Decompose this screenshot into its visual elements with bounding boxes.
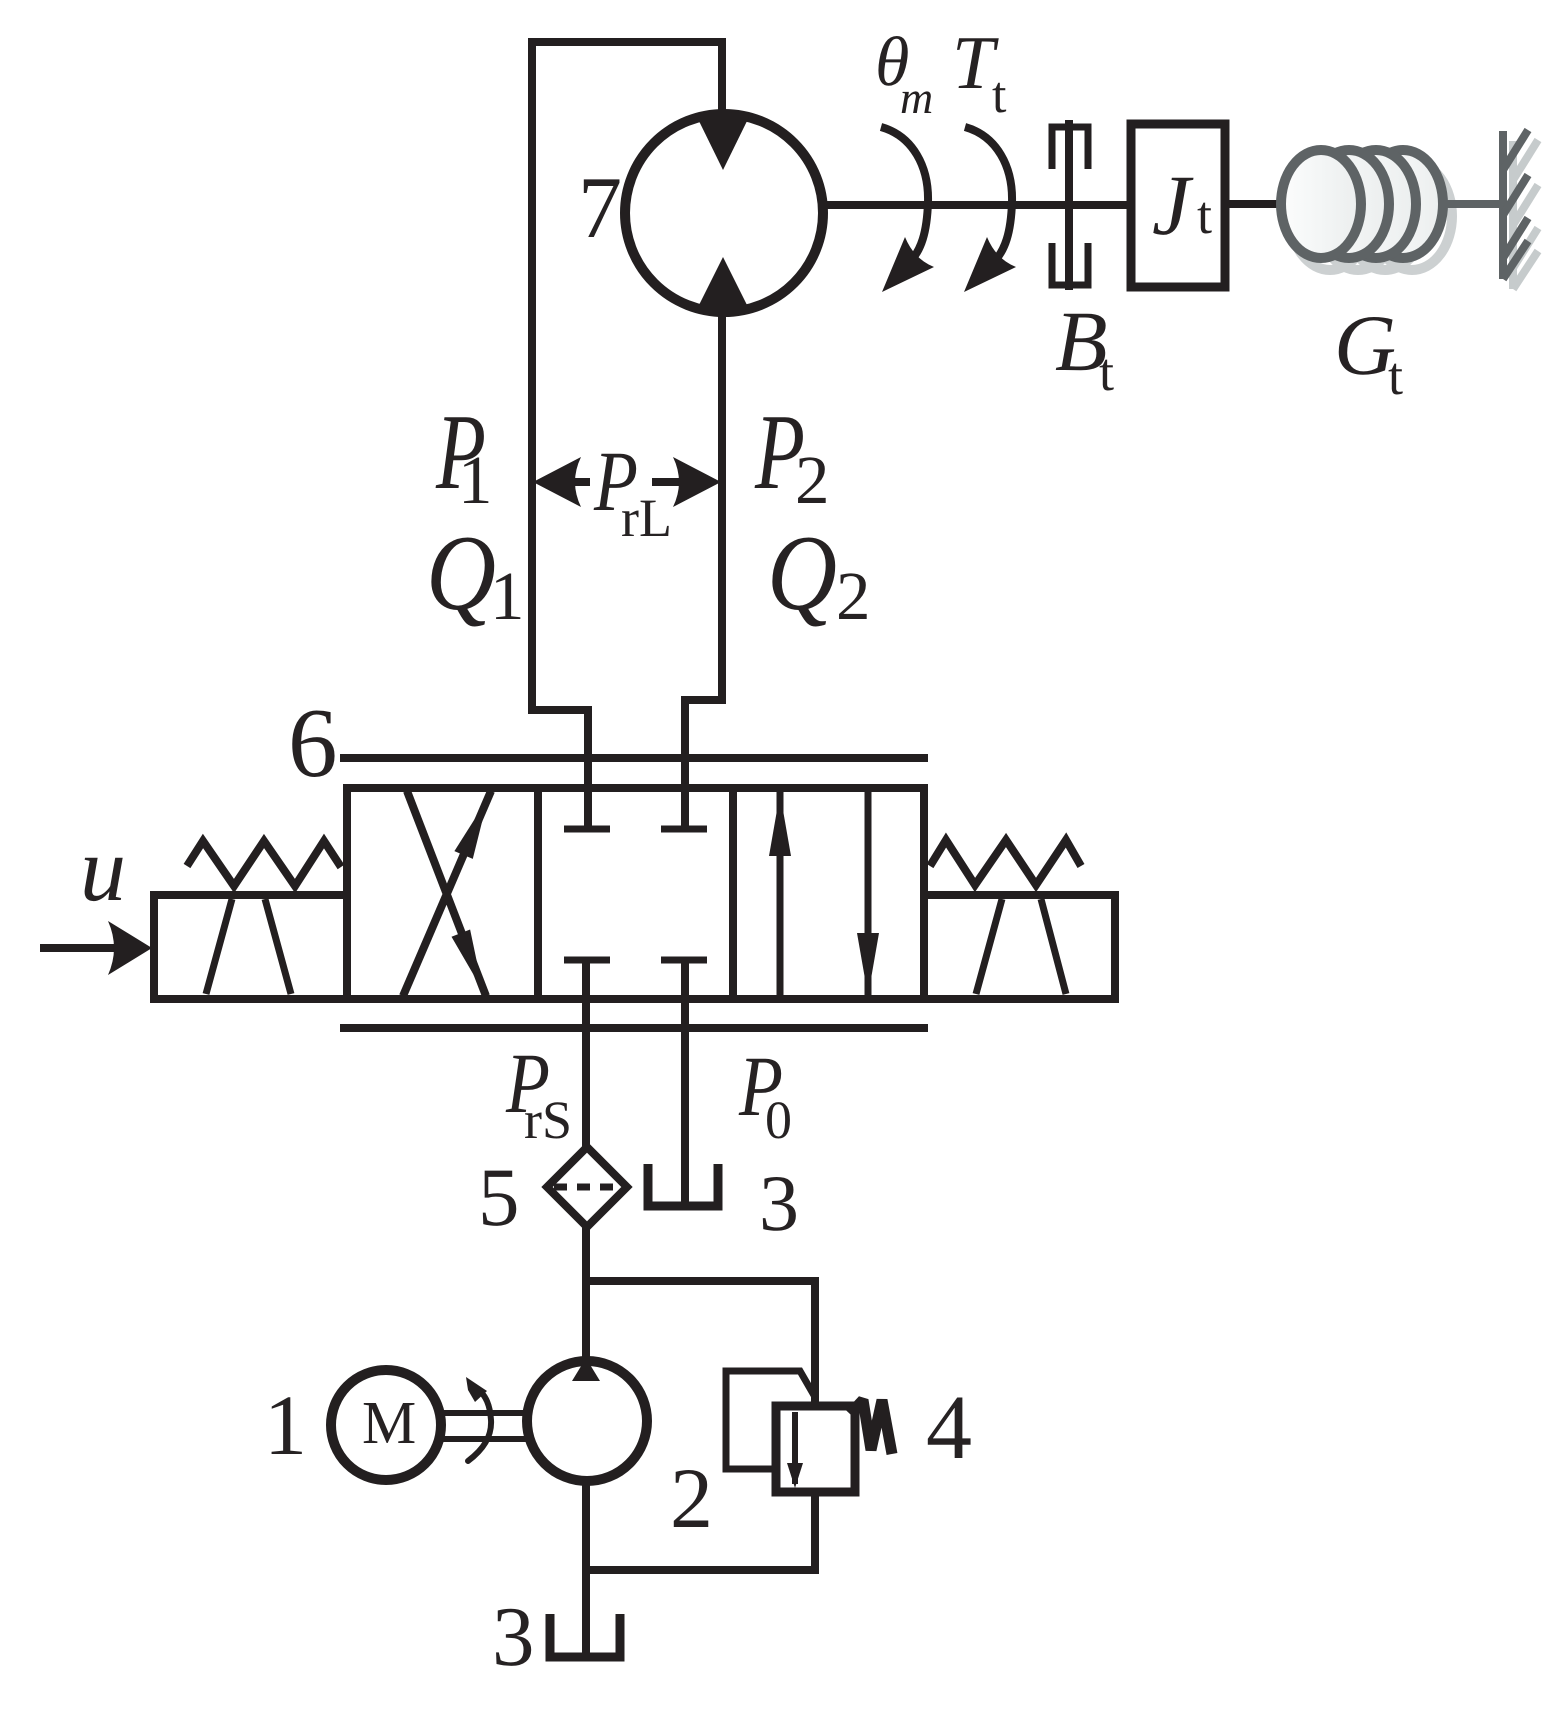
svg-text:t: t [1197, 185, 1212, 245]
svg-text:Q: Q [426, 514, 496, 633]
valve body (three position boxes) [347, 788, 924, 999]
svg-text:3: 3 [759, 1160, 799, 1248]
electric motor 1 circle [331, 1370, 441, 1480]
label Tt [952, 21, 1007, 124]
filter 5 diamond [547, 1147, 627, 1227]
shaft Jt to spring [1225, 200, 1282, 208]
relief valve spring [850, 1400, 892, 1454]
damper Bt top bracket [1052, 127, 1088, 169]
valve center blocked port bar top-right [661, 826, 707, 833]
svg-text:G: G [1334, 297, 1396, 393]
svg-text:J: J [1152, 157, 1194, 253]
valve left box crossed arrow A [403, 791, 491, 996]
svg-text:M: M [362, 1390, 416, 1457]
wall (fixed frame) [1503, 130, 1528, 279]
wire PrS (valve to filter) [582, 960, 590, 1148]
svg-text:1: 1 [264, 1377, 307, 1473]
svg-text:2: 2 [670, 1450, 713, 1546]
label Gt [1334, 297, 1403, 406]
valve right box up arrow [769, 792, 791, 999]
damper Bt bottom bracket [1052, 243, 1088, 285]
svg-text:7: 7 [578, 160, 622, 257]
relief valve 4 body [776, 1406, 855, 1492]
svg-text:t: t [1099, 342, 1114, 402]
wall shadow [1513, 140, 1538, 289]
label Q1 [426, 514, 525, 634]
svg-text:rL: rL [621, 488, 672, 548]
svg-text:Q: Q [767, 514, 837, 633]
curved arrow T_t [964, 127, 1016, 292]
valve center blocked port bar bottom-right [661, 957, 707, 964]
label Q2 [767, 514, 871, 634]
svg-text:0: 0 [765, 1090, 792, 1150]
label Bt [1055, 293, 1114, 402]
shaft motor to Jt [823, 201, 1131, 209]
proportional valve lower symmetry line [340, 1024, 928, 1032]
label P0 [738, 1038, 792, 1150]
left solenoid box [154, 895, 347, 999]
inertia Jt box [1131, 124, 1225, 287]
wire filter to pump [582, 1227, 590, 1358]
right solenoid slant lines [976, 899, 1066, 994]
right solenoid box [924, 895, 1115, 999]
svg-text:6: 6 [288, 689, 338, 798]
svg-text:t: t [992, 67, 1007, 124]
pump suction wire [582, 1483, 590, 1653]
filter dashed element [554, 1184, 620, 1191]
label theta_m [875, 24, 931, 113]
pump 2 circle [527, 1361, 647, 1481]
relief valve internal arrow [787, 1412, 803, 1488]
svg-text:u: u [80, 818, 126, 920]
valve left box crossed arrow B [407, 791, 486, 996]
spring Gt shadow [1290, 162, 1452, 270]
motor triangle bottom [697, 257, 749, 309]
svg-text:θ: θ [875, 24, 909, 101]
right spring [930, 840, 1081, 885]
spring Gt coils [1281, 150, 1443, 258]
valve center blocked port bar top-left [564, 826, 610, 833]
link spring to wall [1443, 200, 1503, 208]
label Jt [1152, 157, 1212, 253]
curved arrow theta_m [881, 127, 934, 292]
pump triangle [572, 1358, 600, 1381]
wire P0 (valve to tank) [681, 960, 689, 1203]
label PrL [590, 433, 672, 548]
svg-text:5: 5 [478, 1151, 520, 1243]
left spring [187, 841, 341, 886]
valve divider right [729, 788, 737, 999]
svg-text:rS: rS [524, 1090, 572, 1150]
shaft motor-pump double line [443, 1413, 528, 1439]
wire P2 (motor bottom port to valve port B) [685, 312, 722, 827]
proportional valve upper symmetry line 6 [340, 754, 928, 762]
svg-text:2: 2 [836, 558, 871, 634]
load pressure double arrow PrL [533, 457, 721, 507]
wire relief valve to bottom line [811, 1492, 819, 1574]
tank 3 lower [550, 1614, 620, 1657]
bottom return wire [582, 1566, 815, 1574]
rotation arrow on shaft [466, 1377, 491, 1461]
hydraulic motor U7 circle [625, 114, 823, 312]
input u arrow [40, 921, 152, 975]
wire P1 (motor top port to valve port A) [532, 42, 722, 827]
label P2 [754, 393, 829, 518]
svg-text:1: 1 [458, 442, 493, 518]
tank 3 upper [648, 1164, 718, 1206]
wire junction to relief branch [586, 1281, 815, 1406]
left solenoid slant lines [206, 899, 291, 994]
svg-text:2: 2 [795, 442, 830, 518]
svg-text:3: 3 [492, 1590, 535, 1684]
label PrS [505, 1035, 572, 1150]
motor triangle top [697, 117, 749, 170]
valve center blocked port bar bottom-left [564, 957, 610, 964]
valve right box down arrow [857, 792, 879, 999]
svg-text:4: 4 [926, 1376, 972, 1478]
valve divider left [534, 788, 542, 999]
label P1 [435, 393, 492, 518]
relief valve pilot line [726, 1371, 815, 1469]
svg-text:t: t [1388, 346, 1403, 406]
svg-text:1: 1 [490, 558, 525, 634]
damper Bt center line [1065, 120, 1073, 290]
